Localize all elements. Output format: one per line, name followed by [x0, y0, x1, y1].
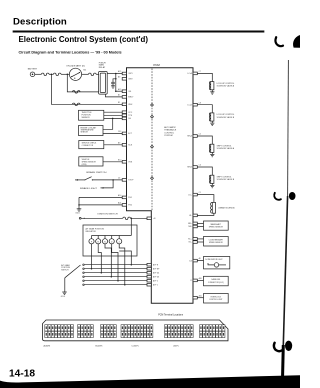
wire ATP R	[83, 264, 147, 266]
countershaft speed sensor	[204, 237, 229, 247]
svg-text:LOCK-UP CONTROL: LOCK-UP CONTROL	[217, 83, 235, 85]
wire solenoid LC-B to ground	[211, 121, 213, 123]
svg-text:LS-: LS-	[189, 215, 192, 217]
wire to brake light	[101, 180, 114, 189]
svg-text:NM-: NM-	[188, 226, 192, 228]
wire PG2	[79, 204, 122, 206]
svg-text:D2: D2	[118, 178, 120, 180]
wire to data link connector	[197, 279, 203, 281]
svg-text:A9: A9	[118, 75, 120, 78]
pin C7 LC-A	[187, 71, 200, 75]
connector pin grid	[45, 325, 225, 338]
svg-text:SPEED SENSOR: SPEED SENSOR	[209, 242, 224, 244]
svg-text:SHIFT CONTROL: SHIFT CONTROL	[217, 176, 232, 178]
svg-text:IGP1: IGP1	[128, 73, 132, 75]
svg-text:TRANSAXLE: TRANSAXLE	[164, 129, 177, 132]
svg-text:LINEAR SOLENOID: LINEAR SOLENOID	[218, 207, 235, 210]
pin NC+	[188, 238, 197, 241]
svg-text:INDICATOR: INDICATOR	[86, 230, 97, 233]
svg-text:NC+: NC+	[188, 239, 192, 241]
mainshaft speed sensor	[204, 221, 229, 230]
pin LS+	[188, 192, 201, 196]
wire solenoid LC-A to ground	[211, 90, 213, 92]
svg-text:SOLENOID VALVE B: SOLENOID VALVE B	[217, 178, 235, 181]
svg-text:SYSTEM: SYSTEM	[164, 135, 173, 137]
svg-text:MRLY: MRLY	[128, 97, 134, 99]
svg-text:A15: A15	[199, 294, 202, 297]
svg-text:LOCK-UP CONTROL: LOCK-UP CONTROL	[217, 114, 235, 116]
fuse main 2	[54, 73, 62, 76]
wire relay to IGP1 pin	[107, 73, 122, 75]
wire bus to IGP2 pin	[116, 90, 123, 92]
pin ECT	[118, 131, 133, 135]
label brake light	[80, 187, 98, 190]
svg-text:LC-A: LC-A	[187, 72, 192, 75]
pin STOP SW	[118, 178, 134, 182]
node bus bottom	[115, 90, 117, 92]
svg-text:Description: Description	[13, 17, 67, 28]
svg-text:A9: A9	[118, 141, 120, 144]
wire ATP NP	[83, 268, 147, 270]
svg-text:SOLENOID VALVE A: SOLENOID VALVE A	[217, 147, 235, 150]
node B junction	[67, 74, 69, 76]
wire solenoid SH-B to ground	[211, 183, 213, 185]
wire TPS SG	[104, 117, 123, 119]
svg-text:DATA LINK: DATA LINK	[211, 278, 221, 281]
wire NM+ to mainshaft sensor	[197, 222, 203, 224]
divider connector diamond 4	[151, 177, 154, 180]
svg-text:SHIFT CONTROL: SHIFT CONTROL	[217, 145, 232, 147]
svg-text:14-18: 14-18	[9, 369, 35, 380]
ignition switch	[66, 65, 86, 81]
wire bulb P drop	[91, 244, 93, 270]
svg-text:A24: A24	[118, 202, 121, 205]
wire LC-A to solenoid	[197, 73, 212, 81]
data link connector	[204, 276, 229, 286]
capacitor C1	[111, 79, 116, 86]
svg-text:(31P): (31P)	[174, 346, 179, 348]
pin C8 LC-B	[187, 102, 200, 106]
svg-text:INTERLOCK: INTERLOCK	[211, 296, 222, 298]
ground solenoid LC-B	[210, 123, 214, 125]
indicator bulb P	[89, 236, 94, 244]
pin B1 VBU	[118, 102, 133, 106]
label solenoid SH-A	[217, 145, 235, 150]
svg-text:G101: G101	[75, 213, 79, 215]
wire bulb R drop	[98, 244, 102, 274]
wire bulb N drop	[105, 244, 112, 278]
wire fuse1 to node A	[49, 73, 54, 75]
page number	[9, 369, 35, 380]
interlock control unit	[204, 294, 229, 304]
wire ignition to fuse	[81, 218, 123, 219]
binding edge shadow line	[282, 60, 288, 388]
label connector C2	[174, 346, 179, 348]
pin D4 IND	[189, 257, 200, 262]
pin PG1	[118, 194, 132, 199]
wire SG to ECT	[103, 118, 113, 129]
svg-text:PCM Terminal Locations: PCM Terminal Locations	[158, 313, 184, 316]
svg-text:A7: A7	[118, 94, 120, 97]
svg-text:C7: C7	[199, 71, 201, 73]
svg-text:ON (II)/START (II): ON (II)/START (II)	[66, 65, 85, 68]
divider connector diamond 1	[151, 104, 154, 107]
svg-text:C (31P): C (31P)	[132, 346, 139, 348]
label ignition switch 2	[98, 213, 119, 215]
svg-text:NM+: NM+	[188, 223, 192, 225]
svg-text:ATP D4: ATP D4	[153, 271, 159, 274]
pin TPS	[122, 114, 133, 117]
wire fuse2 to ignition switch	[61, 73, 69, 75]
pin NM-	[188, 225, 197, 228]
divider connector diamond 2	[151, 115, 154, 118]
label solenoid LC-A	[217, 83, 235, 88]
pin interlock	[193, 294, 202, 299]
pin A7 MRLY	[118, 94, 134, 99]
wire to D4 indicator light	[197, 261, 208, 263]
service check connector	[79, 141, 104, 149]
svg-text:PG2: PG2	[128, 205, 132, 207]
node bus cap tap	[115, 78, 117, 80]
svg-text:SOLENOID VALVE A: SOLENOID VALVE A	[217, 85, 235, 88]
brake switch	[84, 177, 93, 181]
pin C5 SH-A	[187, 134, 201, 138]
wire fuse3 to relay	[96, 73, 99, 75]
pin C6 SH-B	[187, 165, 201, 169]
pin SCS	[118, 141, 133, 146]
wire node A to VBU pin	[51, 74, 122, 104]
label solenoid SH-B	[217, 176, 235, 181]
svg-text:CONNECTOR (DLC): CONNECTOR (DLC)	[208, 282, 224, 284]
wire battery to fuse	[35, 73, 42, 75]
svg-text:ATP NP: ATP NP	[153, 267, 160, 270]
pin A19 IG1	[118, 88, 131, 93]
connector outline	[43, 320, 229, 341]
wire indicator R return	[119, 251, 132, 265]
svg-text:B (25P): B (25P)	[96, 346, 103, 348]
svg-text:AUTOMATIC: AUTOMATIC	[164, 126, 176, 129]
svg-text:NC-: NC-	[189, 242, 193, 244]
label PCM terminal locations	[158, 313, 184, 316]
indicator bulb N	[102, 236, 107, 244]
label brake switch	[86, 171, 107, 174]
pin K-LINE	[191, 277, 202, 282]
ground solenoid SH-A	[210, 154, 214, 156]
wire NC+ to countershaft sensor	[197, 238, 203, 240]
wire NC- to countershaft sensor	[197, 241, 203, 243]
svg-text:BRAKE SWITCH: BRAKE SWITCH	[86, 171, 107, 174]
svg-text:LC-B: LC-B	[187, 104, 192, 106]
node SG junction	[112, 118, 114, 120]
label automatic transaxle control system	[164, 126, 177, 137]
wire TPS VCC	[104, 111, 123, 113]
fuse ignition coil feed	[73, 91, 81, 94]
connector terminal	[79, 217, 81, 219]
wire fuse to +B pin	[130, 217, 147, 219]
svg-text:Electronic Control System (con: Electronic Control System (cont'd)	[19, 35, 149, 44]
AT gear position indicator box	[83, 225, 137, 256]
wire PG1	[79, 196, 122, 198]
svg-text:ATP D3: ATP D3	[153, 275, 159, 278]
svg-text:A (32P): A (32P)	[44, 345, 51, 348]
wire relay to MRLY pin	[105, 94, 122, 97]
svg-text:C6: C6	[199, 165, 201, 167]
AT gear position switch label	[61, 264, 70, 272]
svg-text:A19: A19	[118, 88, 121, 91]
page curl top right	[275, 37, 283, 46]
corner blob top right	[293, 35, 300, 48]
svg-text:RELAY: RELAY	[99, 66, 106, 69]
caption Circuit Diagram and Terminal Locations	[19, 51, 122, 55]
svg-text:COUNTERSHAFT: COUNTERSHAFT	[209, 238, 224, 241]
header rule	[13, 31, 264, 32]
node indicator feed	[131, 218, 133, 220]
svg-text:CONTROL: CONTROL	[164, 132, 175, 134]
svg-text:D4: D4	[189, 260, 191, 262]
wire brake switch to pin	[92, 179, 122, 181]
wire ECT to pin	[103, 132, 122, 134]
pin A9 IGP2	[118, 75, 133, 80]
svg-text:ATP 1: ATP 1	[153, 283, 158, 286]
solenoid valve SH-A	[209, 144, 214, 152]
svg-text:C5: C5	[199, 134, 201, 136]
svg-text:C8: C8	[199, 102, 201, 104]
svg-text:A5: A5	[199, 257, 201, 260]
binder ring middle	[274, 192, 295, 200]
wire bulb D drop	[112, 244, 119, 282]
svg-text:SENSOR: SENSOR	[82, 117, 91, 119]
label connector C	[132, 346, 139, 348]
svg-text:D13: D13	[118, 131, 121, 133]
ground solenoid SH-B	[210, 185, 214, 187]
pin A25 IGP1	[118, 70, 133, 75]
svg-text:SPEED SENSOR: SPEED SENSOR	[209, 227, 224, 229]
svg-text:SH-B: SH-B	[187, 167, 192, 169]
vehicle speed sensor	[79, 157, 103, 166]
indicator supply drop	[130, 218, 132, 235]
label connector A	[44, 345, 51, 348]
wire SH-B to solenoid	[197, 167, 212, 175]
svg-text:A30: A30	[199, 277, 202, 280]
wire ATP D3	[83, 276, 147, 278]
pin ATP D3	[147, 275, 159, 278]
divider connector diamond 3	[151, 145, 154, 148]
pin ATP D4	[147, 271, 159, 274]
wire bulb 2 drop	[119, 244, 125, 286]
title Description	[13, 17, 67, 28]
battery B+	[28, 68, 38, 77]
svg-text:SWITCH: SWITCH	[61, 269, 69, 271]
subtitle Electronic Control System	[19, 35, 149, 44]
pin ATP R	[147, 263, 159, 266]
svg-text:IG1: IG1	[83, 70, 86, 72]
PCM box outline	[127, 68, 194, 304]
wire TPS signal	[104, 114, 123, 116]
svg-text:SH-A: SH-A	[187, 135, 192, 138]
svg-text:D4 INDICATOR LIGHT: D4 INDICATOR LIGHT	[205, 258, 222, 261]
wire ground drop	[78, 197, 80, 208]
solenoid valve SH-B	[209, 175, 214, 183]
node bus top	[115, 73, 117, 75]
indicator bulb 2	[117, 236, 122, 244]
wire NM- to mainshaft sensor	[197, 226, 203, 228]
indicator bus	[92, 235, 132, 237]
svg-text:IGNITION SWITCH: IGNITION SWITCH	[98, 213, 119, 215]
node A junction	[51, 74, 53, 76]
PCM internal dashed divider	[151, 69, 153, 211]
wire VSS to pin	[103, 161, 122, 163]
svg-text:MAINSHAFT: MAINSHAFT	[211, 223, 222, 226]
relay PGM-FI main relay	[99, 62, 108, 94]
linear solenoid	[211, 202, 216, 213]
wire node B drop to relay coil	[67, 74, 98, 92]
wire to brake system arrow	[75, 179, 84, 181]
pin ATP NP	[147, 267, 160, 270]
wire solenoid SH-A to ground	[211, 152, 213, 154]
wire LS+ to linear solenoid	[197, 195, 214, 203]
label solenoid LC-B	[217, 114, 235, 119]
svg-text:VCC: VCC	[128, 112, 133, 114]
ground G101	[75, 209, 81, 215]
svg-text:ATP R: ATP R	[153, 263, 159, 266]
svg-text:STOP: STOP	[128, 180, 134, 182]
pin ATP 1	[147, 283, 158, 286]
svg-text:B10: B10	[118, 159, 121, 161]
svg-text:SOLENOID VALVE B: SOLENOID VALVE B	[217, 116, 235, 119]
wire linear solenoid to LS-	[197, 213, 214, 215]
wire bus vertical	[115, 74, 117, 92]
indicator bulb D	[109, 236, 114, 244]
svg-text:A25: A25	[118, 70, 121, 73]
svg-text:B1: B1	[118, 102, 120, 104]
fuse IG1	[89, 73, 97, 76]
wire ATP 2	[83, 280, 147, 282]
wire SH-A to solenoid	[197, 136, 212, 144]
svg-text:SENSOR: SENSOR	[81, 132, 89, 134]
pin LS-	[189, 214, 197, 217]
svg-text:ATP 2: ATP 2	[153, 279, 158, 282]
svg-text:BRAKE LIGHT: BRAKE LIGHT	[80, 187, 98, 190]
label connector B	[96, 346, 103, 348]
solenoid valve LC-B	[209, 113, 214, 121]
pin NC-	[189, 241, 198, 244]
pin VSS	[118, 159, 133, 163]
pin ATP 2	[147, 279, 158, 282]
throttle position sensor	[79, 110, 104, 120]
indicator bulb R	[96, 236, 101, 244]
D4 indicator light box	[204, 257, 230, 269]
fuse indicator feed	[123, 217, 130, 220]
PCM label	[154, 63, 161, 67]
wire SCS to pin	[104, 144, 123, 146]
svg-text:(VSS): (VSS)	[82, 164, 87, 166]
AT gear position switch arm	[65, 265, 81, 292]
binder ring lower	[274, 341, 292, 352]
pin SG	[122, 117, 131, 120]
engine coolant temperature sensor	[79, 126, 104, 136]
svg-text:VBU: VBU	[128, 104, 133, 106]
svg-text:IGP2: IGP2	[128, 79, 132, 81]
node brake junction	[112, 179, 114, 181]
svg-text:G101: G101	[61, 296, 65, 298]
svg-text:A10: A10	[118, 194, 121, 197]
svg-text:CONTROL UNIT: CONTROL UNIT	[209, 299, 223, 301]
ground capacitor	[111, 86, 115, 88]
svg-text:BATTERY: BATTERY	[28, 68, 38, 71]
pin +B	[147, 217, 156, 220]
pin NM+	[188, 222, 197, 225]
pin PG2	[118, 202, 132, 207]
wire ATP D4	[83, 272, 147, 274]
D4 indicator bulb	[208, 263, 226, 267]
label linear solenoid	[218, 207, 235, 210]
fuse main 1	[42, 73, 50, 76]
wire LC-B to solenoid	[197, 105, 212, 113]
ground G switch	[61, 292, 67, 298]
svg-text:Circuit Diagram and Terminal L: Circuit Diagram and Terminal Locations —…	[19, 51, 122, 55]
svg-text:IG1: IG1	[128, 91, 131, 93]
wire ATP 1	[83, 284, 147, 286]
wire switch to fuse3	[82, 73, 89, 75]
svg-text:C1: C1	[199, 192, 201, 194]
wire to interlock control unit	[197, 297, 203, 299]
fuse back-up	[73, 103, 81, 106]
svg-text:PCM: PCM	[154, 63, 161, 67]
node ground junction	[78, 204, 80, 206]
svg-text:CONNECTOR: CONNECTOR	[82, 145, 94, 147]
solenoid valve LC-A	[209, 82, 214, 90]
svg-text:PG1: PG1	[128, 197, 132, 199]
ground solenoid LC-A	[210, 92, 214, 94]
page bottom edge shadow	[0, 375, 300, 388]
pin VCC	[122, 111, 133, 114]
